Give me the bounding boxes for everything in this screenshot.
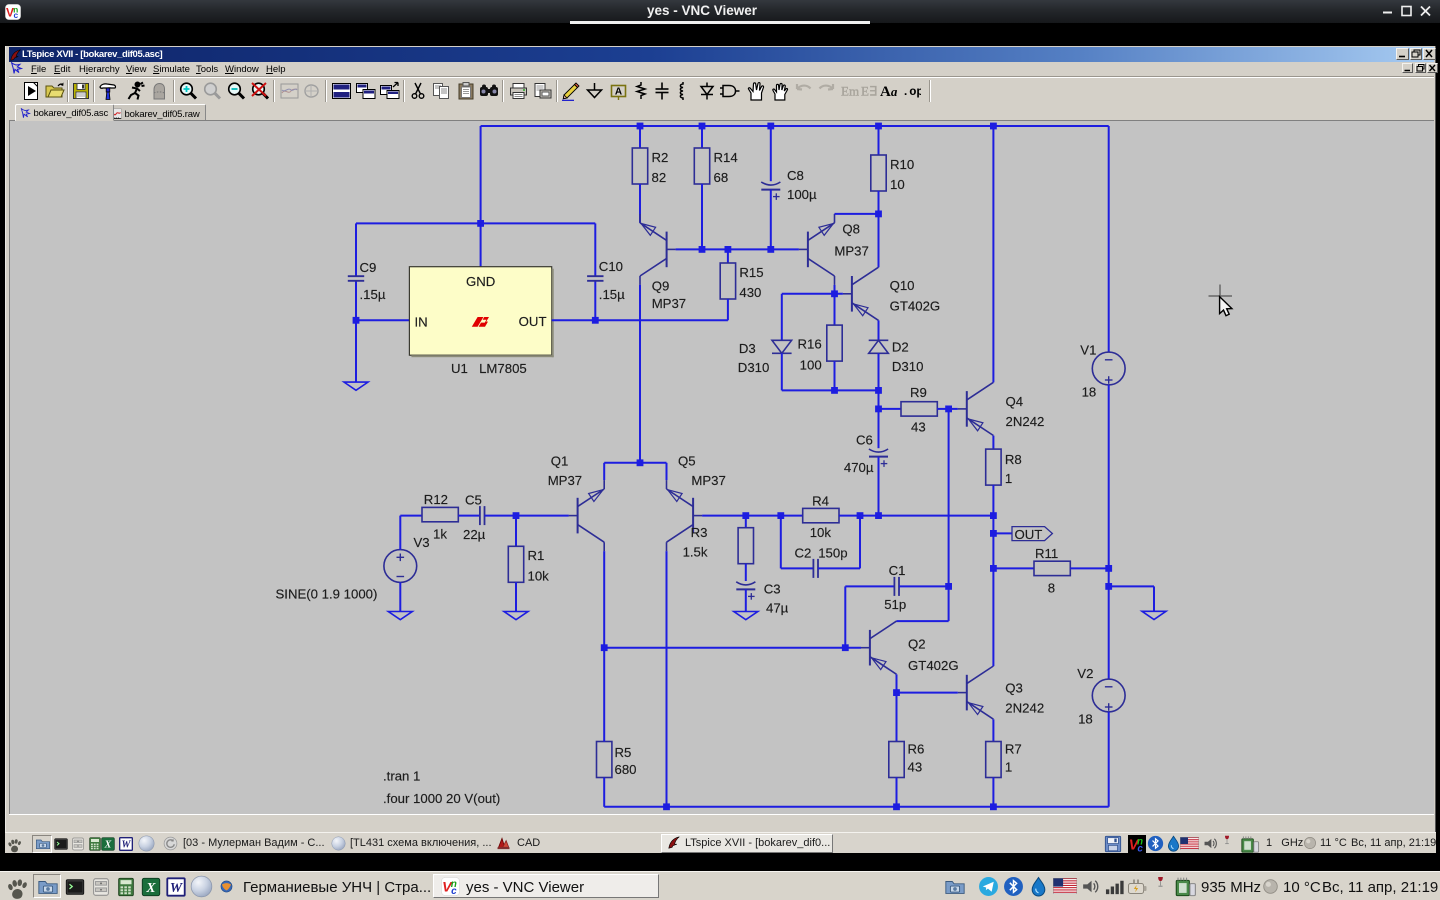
wire Q9 collector column [639,285,641,463]
svg-text:R12: R12 [424,492,448,507]
resistor R3 [683,525,754,564]
svg-text:GT402G: GT402G [890,299,941,314]
svg-text:82: 82 [652,170,667,185]
svg-text:.four 1000 20 V(out): .four 1000 20 V(out) [383,791,500,806]
node base-rail-R14 [699,246,706,253]
wire Q1 collector down [603,551,605,648]
transistor Q10 [843,267,940,320]
svg-text:C9: C9 [360,260,377,275]
wire R7 bottom lead [992,778,994,807]
svg-text:MP37: MP37 [834,244,868,259]
svg-text:2N242: 2N242 [1006,414,1045,429]
wire Q3 emitter lead [992,719,994,741]
wire C6 top lead [878,409,880,448]
wire R3 to C3 [745,564,747,581]
svg-text:C10: C10 [599,259,623,274]
svg-text:LM7805: LM7805 [479,361,527,376]
svg-text:Q3: Q3 [1005,681,1023,696]
svg-text:Q9: Q9 [652,279,670,294]
svg-text:C2: C2 [795,546,812,561]
node R9-left [875,406,882,413]
wire R16 top lead [834,294,836,325]
node botrail-Q5C [663,803,670,810]
svg-text:430: 430 [739,285,761,300]
resistor R12 [422,492,458,542]
capacitor C6 [844,433,888,475]
svg-text:47µ: 47µ [766,601,789,616]
svg-text:10: 10 [890,177,905,192]
label U1 LM7805 [451,361,527,376]
wire Q5 collector down [666,551,668,807]
svg-text:MP37: MP37 [691,473,725,488]
node tail [637,459,644,466]
node R11-left-node [990,565,997,572]
svg-text:R4: R4 [812,494,829,509]
capacitor C3 [736,581,788,615]
wire C9 top lead [355,223,357,276]
node C1-Q2base [842,644,849,651]
svg-text:8: 8 [1048,581,1055,596]
svg-text:1.5k: 1.5k [683,544,708,559]
wire Q5 emitter up [666,463,668,480]
node Q2E-node [893,689,900,696]
svg-text:10k: 10k [528,568,550,583]
svg-text:.op: .op [902,85,921,99]
svg-text:R10: R10 [890,157,914,172]
svg-text:OUT: OUT [1015,527,1043,542]
wire C1 left lead [845,585,894,587]
node out-stub-node [990,530,997,537]
svg-text:D310: D310 [738,360,770,375]
wire right gnd stub h [1109,585,1154,587]
svg-text:18: 18 [1082,385,1097,400]
wire R9 left lead [879,408,902,410]
transistor Q5 [667,454,726,552]
schematic area [9,120,1434,814]
svg-text:C6: C6 [856,433,873,448]
voltage source V1 [1080,343,1125,400]
wire V2 bottom lead [1108,712,1110,807]
node R9-right [945,406,952,413]
mouse crosshair cursor [1209,285,1233,316]
svg-text:U1: U1 [451,361,468,376]
wire R2 top lead [639,126,641,148]
wire C2 right rise [859,516,861,569]
wire Q4 emitter lead [992,436,994,450]
resistor R9 [901,385,937,435]
svg-text:.tran 1: .tran 1 [383,769,420,784]
svg-text:GT402G: GT402G [908,658,959,673]
node gnd-branch [1105,583,1112,590]
svg-text:OUT: OUT [519,314,547,329]
menu bar [9,62,1434,77]
wire C3 bottom lead [745,589,747,611]
svg-text:C5: C5 [465,493,482,508]
wire R3 top lead [745,516,747,528]
wire R6 bottom lead [896,778,898,807]
wire right gnd stub v [1153,586,1155,611]
wire C2 right lead [818,567,860,569]
wire C9-C10 rail [356,222,595,224]
transistor Q8 [799,214,869,285]
wire R10 top lead [878,126,880,155]
wire OUT stub [993,532,1012,534]
capacitor C9 [348,260,386,302]
wire Q3 base rail [897,692,958,694]
local (outer) taskbar [0,871,1440,900]
node R16-bot [831,387,838,394]
LT logo on U1 [472,317,489,327]
svg-text:Q8: Q8 [842,221,860,236]
wire bottom rail [604,806,1108,808]
diode D2 [869,340,924,375]
node rail-R10 [875,123,882,130]
wire R16 bottom lead [834,361,836,390]
svg-text:c: c [13,10,18,20]
node R10-Q8-Q10 [875,211,882,218]
wire V3 bottom lead [399,582,401,611]
svg-text:470µ: 470µ [844,460,874,475]
op-amp U1 LM7805 regulator body [409,267,553,358]
wire R1 bottom lead [515,582,517,611]
wire C5 to R1 node [485,515,569,517]
svg-text:43: 43 [911,420,926,435]
wire R1 top lead [515,516,517,547]
wire D3-D2 rail [782,389,879,391]
wire C2 left drop [780,516,782,569]
wire C8 bottom lead [770,190,772,250]
ground [344,382,368,390]
node botrail-R7 [990,803,997,810]
wire Q2 collector lead [897,620,949,622]
svg-text:V2: V2 [1077,666,1093,681]
svg-text:SINE(0 1.9 1000): SINE(0 1.9 1000) [276,586,378,601]
wire Q2 collector column2 [948,586,950,621]
wire V1 bottom column [1108,385,1110,679]
transistor Q4 [958,382,1045,435]
wire R11 left lead [993,567,1034,569]
resistor R4 [803,494,839,541]
svg-text:R15: R15 [739,265,763,280]
wire D3 bottom lead [781,353,783,390]
svg-text:2N242: 2N242 [1005,701,1044,716]
svg-text:MP37: MP37 [652,296,686,311]
svg-text:W: W [170,880,184,895]
transistor Q1 [548,454,605,552]
node C9-IN [353,317,360,324]
node R1-node [513,512,520,519]
svg-text:100: 100 [800,357,822,372]
wire R14 top lead [701,126,703,148]
voltage source V2 [1077,666,1125,727]
ground [388,612,412,620]
wire Q8 emitter to R10 node [835,213,879,215]
wire R5 top lead [603,648,605,742]
wire R4 to C6 node [839,515,993,517]
svg-text:R9: R9 [910,385,927,400]
capacitor C1 [884,563,906,612]
resistor R11 [1034,546,1070,596]
resistor R14 [694,148,737,185]
node R8-out-node [990,512,997,519]
svg-text:C1: C1 [889,563,906,578]
node rail-Q4 [990,123,997,130]
wire D2 node to R9 node [878,390,880,409]
wire U1 GND column [480,126,482,267]
svg-text:X: X [104,839,112,850]
node rail-GND [477,220,484,227]
svg-text:1k: 1k [433,527,447,542]
resistor R1 [508,546,549,583]
wire Q2 base rail [604,647,861,649]
svg-text:GND: GND [466,274,495,289]
svg-text:Q1: Q1 [551,454,569,469]
node R16-Q10base [831,290,838,297]
transistor Q3 [958,666,1044,719]
wire Q4 base lead [949,408,958,410]
node R4-C6 [857,512,864,519]
wire down to Q10 [878,214,880,267]
svg-text:680: 680 [615,762,637,777]
capacitor C2 [795,546,848,578]
node base-rail-C8 [767,246,774,253]
wire C8 top lead [770,126,772,181]
resistor R16 [797,325,842,372]
svg-text:43: 43 [908,760,923,775]
wire Q4 collector column [992,126,994,382]
wire Q3 collector column [992,516,994,667]
capacitor C8 [761,168,817,202]
node fbnode [777,512,784,519]
svg-text:R3: R3 [691,525,708,540]
node C10-OUTnet [592,317,599,324]
svg-text:R7: R7 [1005,742,1022,757]
svg-text:10k: 10k [810,525,832,540]
wire U1 OUT net [552,319,728,321]
resistor R7 [986,742,1022,778]
svg-text:18: 18 [1078,712,1093,727]
svg-text:V1: V1 [1080,343,1096,358]
node C6-bot [875,512,882,519]
wire V3 to R12 [400,515,422,517]
svg-text:C3: C3 [764,581,781,596]
node C1-right [945,583,952,590]
svg-text:R8: R8 [1005,452,1022,467]
wire Q2 collector column [948,409,950,587]
svg-text:D2: D2 [892,340,909,355]
ground [734,612,758,620]
resistor R15 [720,263,763,300]
resistor R2 [632,148,668,185]
wire top +rail [481,125,1109,127]
svg-text:22µ: 22µ [463,527,486,542]
wire R5 bottom lead [603,778,605,807]
tab bar [9,104,1434,120]
wire diff pair emitters [604,462,666,464]
wire C1 drop to Q2 base [844,586,846,647]
svg-text:Q2: Q2 [908,637,926,652]
wire R9 right lead [937,408,948,410]
svg-text:1: 1 [1005,471,1012,486]
svg-text:Aa: Aa [880,84,898,100]
toolbar [9,77,1434,104]
wire C1 right lead [899,585,949,587]
node Q1C-Q2base [601,644,608,651]
svg-text:100µ: 100µ [787,187,817,202]
resistor R8 [986,449,1022,486]
capacitor C5 [463,493,486,543]
svg-text:R6: R6 [908,742,925,757]
node Q5base-R3 [742,512,749,519]
resistor R10 [871,155,914,192]
svg-text:.15µ: .15µ [599,287,625,302]
svg-text:51p: 51p [884,597,906,612]
wire D3 base rail [782,293,843,295]
node rail-R14 [699,123,706,130]
svg-text:R2: R2 [652,150,669,165]
node R11-right [1105,565,1112,572]
wire R12 to C5 [458,515,480,517]
svg-text:W: W [122,839,132,850]
svg-text:68: 68 [714,170,729,185]
svg-text:c: c [451,886,457,896]
node rail-R2 [637,123,644,130]
svg-text:Em: Em [841,84,859,99]
diode D3 [738,340,792,375]
wire R10 bottom lead [878,191,880,214]
wire C9 bottom lead [355,281,357,382]
remote (inner) taskbar [5,832,1436,853]
wire R11 right lead [1070,567,1108,569]
wire Q10 emitter to D2 [878,320,880,340]
wire C2 left lead [781,567,814,569]
wire D2 bottom lead [878,353,880,390]
wire Q5 base lead [702,515,803,517]
wire R15 bottom lead [727,299,729,320]
ground [1142,611,1166,619]
wire Q9-Q8 base rail [676,248,799,250]
wire Q8 collector stub [834,285,836,294]
node rail-C8 [767,123,774,130]
wire C10 top lead [594,223,596,276]
wire R14 bottom lead [701,184,703,249]
node OUT flag [1012,527,1052,542]
svg-text:R11: R11 [1035,546,1058,561]
svg-text:D3: D3 [739,341,756,356]
wire Q2 emitter down [896,674,898,692]
wire D3 top lead [781,294,783,341]
svg-text:C8: C8 [787,168,804,183]
node base-rail-R15 [725,246,732,253]
wire V3 top lead [399,516,401,550]
wire R8 bottom lead [992,485,994,515]
wire C10 bottom lead [594,281,596,321]
transistor Q9 [640,214,686,311]
transistor Q2 [861,621,959,674]
wire R6 top lead [896,693,898,742]
svg-text:R5: R5 [615,745,632,760]
svg-text:MP37: MP37 [548,473,582,488]
resistor R6 [889,742,925,778]
wire Q1 emitter up [603,463,605,480]
svg-text:A: A [615,87,622,98]
ground [504,612,528,620]
svg-text:1: 1 [1005,760,1012,775]
voltage source V3 [384,535,430,582]
svg-text:E∃: E∃ [861,84,877,99]
resistor R5 [597,742,637,778]
svg-text:Q10: Q10 [890,278,915,293]
svg-text:.15µ: .15µ [360,287,386,302]
svg-text:Q5: Q5 [678,454,696,469]
svg-text:R14: R14 [714,150,738,165]
svg-text:Q4: Q4 [1006,394,1024,409]
wire IN lead [356,319,409,321]
wire top rail to V1 [1108,126,1110,352]
svg-text:150p: 150p [818,546,847,561]
wire R15 top lead [727,249,729,263]
svg-text:V3: V3 [414,535,430,550]
svg-text:R1: R1 [528,548,545,563]
svg-text:c: c [1137,844,1143,853]
node botrail-R6 [893,803,900,810]
capacitor C10 [587,259,625,302]
wire R2 to Q9 emitter [639,184,641,223]
svg-text:X: X [145,880,156,895]
svg-text:IN: IN [415,314,428,329]
LTspice title bar [9,47,1434,62]
wire C6 bottom lead [878,457,880,516]
svg-text:R16: R16 [797,337,821,352]
VNC viewer window title bar [0,0,1440,23]
svg-text:D310: D310 [892,359,924,374]
node D2-bot [875,387,882,394]
